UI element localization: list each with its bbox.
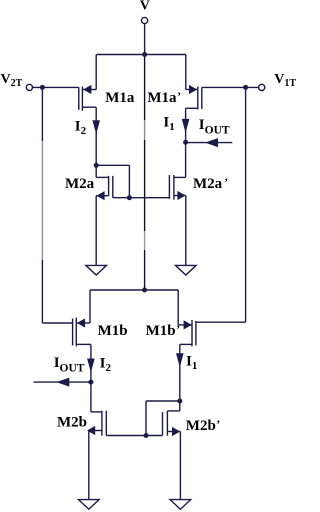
ground upper left: [86, 265, 107, 275]
wire M2a diode loop down: [128, 165, 130, 197]
wire V terminal to top rail: [144, 24, 146, 55]
transistor M2a': [169, 175, 185, 200]
wire gates upper: [113, 197, 170, 199]
svg-text:V2T: V2T: [1, 72, 23, 89]
wire M1b' gate lead: [196, 321, 246, 323]
transistor M2b': [163, 411, 181, 436]
wire V1T to M1a' gate: [202, 86, 259, 88]
svg-text:V: V: [140, 0, 150, 14]
wire M1b' drain down to M2b': [179, 344, 181, 411]
node IOUT upper: [183, 140, 188, 145]
wire M1a drain down to M2a: [95, 107, 97, 165]
node V1T junction: [243, 85, 248, 90]
wire IOUT upper: [186, 142, 233, 144]
wire V2T down to M1b gate: [41, 87, 43, 141]
current arrow IOUT lower: [56, 378, 69, 387]
svg-text:M1a: M1a: [105, 90, 135, 106]
ground lower right: [170, 500, 191, 510]
wire M2a drain stub: [95, 165, 97, 177]
wire IOUT lower: [34, 381, 91, 383]
transistor M1b': [178, 320, 196, 346]
transistor M2a: [96, 176, 113, 200]
svg-text:M1b’: M1b’: [146, 322, 181, 339]
wire center line (faded scan segment): [144, 120, 146, 140]
current arrow I1 upper: [182, 119, 190, 133]
wire M2b' diode loop vertical: [145, 401, 147, 436]
wire M1a source vertical: [95, 55, 97, 90]
svg-text:IOUT: IOUT: [199, 117, 230, 137]
wire M1a' source vertical: [185, 55, 187, 90]
node M2a drain junction: [94, 163, 99, 168]
transistor M1a': [186, 85, 202, 110]
wire M2b' drain horiz: [167, 410, 179, 412]
wire V1T down to M1b' gate: [245, 87, 247, 322]
transistor M2b: [87, 411, 106, 436]
terminal V (top supply): [142, 17, 148, 23]
svg-text:M2a’: M2a’: [193, 175, 228, 192]
wire M1b source vertical: [89, 290, 91, 323]
svg-text:V1T: V1T: [274, 72, 296, 89]
svg-text:M2b: M2b: [57, 414, 87, 430]
wire M2a drain horiz: [96, 176, 108, 178]
current arrow I2 upper: [92, 120, 100, 134]
svg-text:I1: I1: [186, 354, 197, 373]
wire M1b' source vertical: [177, 290, 179, 325]
node V2T junction: [40, 85, 45, 90]
wire center line (faded scan segment 2): [144, 231, 146, 250]
wire M1b drain down to M2b: [90, 344, 92, 412]
svg-text:I1: I1: [163, 114, 174, 133]
wire V2T to M1a gate: [33, 86, 79, 88]
wire M2b drain horiz: [91, 411, 102, 413]
wire center line to lower rail: [144, 250, 146, 290]
ground lower left: [79, 500, 100, 510]
wire M2b' source down: [179, 432, 181, 500]
node gates upper junction: [127, 195, 132, 200]
wire M2a diode loop top: [96, 164, 129, 166]
transistor M1a: [79, 85, 96, 111]
wire lower rail: [90, 289, 178, 291]
wire M1a' drain down to M2a': [185, 108, 187, 177]
transistor M1b: [73, 318, 91, 347]
svg-text:I2: I2: [75, 119, 87, 138]
wire V2T down lower part: [41, 260, 43, 323]
terminal V2T: [26, 84, 32, 90]
wire gates lower: [106, 435, 162, 437]
svg-text:IOUT: IOUT: [54, 355, 85, 375]
node IOUT lower: [88, 380, 93, 385]
wire V2T down (faded scan segment): [41, 141, 43, 260]
wire top rail: [96, 54, 186, 56]
node gates lower junction: [144, 433, 149, 438]
wire M2a' drain horiz: [174, 176, 186, 178]
svg-text:M1a’: M1a’: [147, 89, 181, 106]
wire M2a' source down: [185, 196, 187, 266]
wire M1b gate lead: [42, 322, 72, 324]
wire M2b' diode loop horiz: [146, 400, 180, 402]
svg-text:M2b’: M2b’: [186, 417, 221, 434]
current arrow IOUT upper: [205, 138, 218, 147]
wire center line from top rail down: [144, 55, 146, 121]
svg-text:I2: I2: [100, 356, 112, 375]
node lower rail center: [142, 288, 147, 293]
wire M2a source down: [95, 196, 97, 266]
current arrow I1 lower: [176, 353, 184, 367]
ground upper right: [176, 265, 197, 275]
current arrow I2 lower: [87, 359, 95, 373]
svg-text:M1b: M1b: [98, 323, 128, 339]
wire M2b source down: [88, 431, 90, 500]
wire center line middle: [144, 140, 146, 231]
node M2b' drain junction: [177, 399, 182, 404]
terminal V1T: [259, 84, 265, 90]
node top rail center: [142, 52, 147, 57]
svg-text:M2a: M2a: [65, 176, 95, 192]
